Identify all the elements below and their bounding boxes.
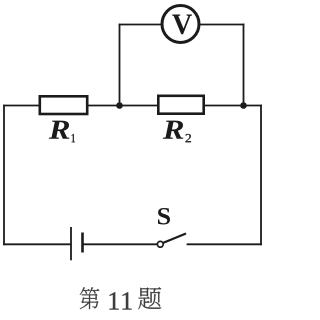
label S for switch [158,208,170,225]
caption char 题 [138,287,161,309]
wire: voltmeter branch left vertical from node A [119,25,121,106]
wire: bottom segment from battery to switch pivot [83,243,157,245]
voltmeter V meter circle [162,6,199,43]
switch S blade (open) [163,234,186,243]
wire: segment R1 to R2 through node A [87,105,159,107]
wire: voltmeter branch right vertical down to node B [243,25,245,106]
wire: segment R2 to top-right corner through node B [204,105,262,107]
label R1 letter R [49,121,70,139]
wire: voltmeter branch top-right horizontal [199,24,244,26]
caption char 第 [80,287,100,309]
wire: bottom segment from switch to right corner [188,243,262,245]
label R1 subscript 1 [72,134,75,142]
wire: voltmeter branch top-left horizontal [120,24,163,26]
wire: top-left segment from corner to R1 [4,105,40,107]
caption digits 11 [109,292,131,309]
wire: right vertical of main loop [260,106,262,245]
label R2 subscript 2 [186,134,192,142]
voltmeter letter V [172,15,192,35]
switch S pivot circle [157,241,163,247]
label R2 letter R [163,121,184,139]
wire: left vertical of main loop [3,106,5,245]
resistor R2 [158,96,203,114]
resistor R1 [40,96,87,114]
battery cell long plate [70,227,72,260]
node A junction dot (between R1 and R2) [116,102,123,109]
node B junction dot (right of R2) [240,102,247,109]
wire: bottom segment from left corner to battery [4,243,71,245]
battery cell short plate [81,233,84,253]
